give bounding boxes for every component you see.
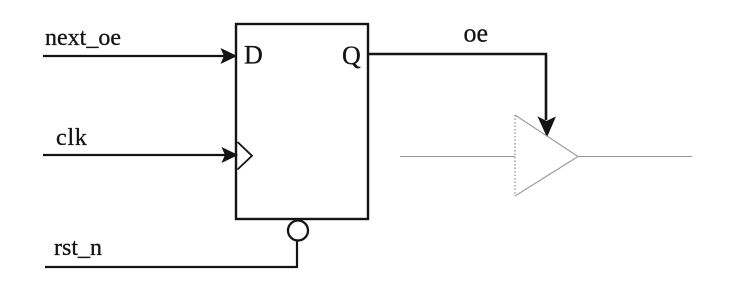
net label clk xyxy=(56,125,88,151)
pin label D xyxy=(244,41,263,70)
svg-text:clk: clk xyxy=(56,125,88,151)
wire clk xyxy=(43,154,225,156)
D flip-flop U1 xyxy=(236,24,368,219)
svg-text:oe: oe xyxy=(464,19,489,48)
arrowhead into buffer enable xyxy=(539,118,556,137)
net label oe xyxy=(464,19,489,48)
net label rst_n xyxy=(54,235,102,261)
reset bubble xyxy=(288,221,308,241)
clock wedge xyxy=(238,142,253,170)
wire oe from Q xyxy=(368,54,546,120)
wire rst_n xyxy=(45,242,297,268)
svg-text:Q: Q xyxy=(342,41,361,70)
pin label Q xyxy=(342,41,361,70)
tri-state buffer (gray) xyxy=(515,115,578,196)
arrowhead into clock pin xyxy=(223,148,238,162)
net label next_oe xyxy=(45,25,121,51)
gray output line from buffer xyxy=(578,156,692,158)
wire next_oe xyxy=(43,55,224,57)
svg-text:D: D xyxy=(244,41,263,70)
svg-text:rst_n: rst_n xyxy=(54,235,102,261)
svg-text:next_oe: next_oe xyxy=(45,25,121,51)
gray input line to buffer xyxy=(400,156,515,158)
arrowhead into D xyxy=(222,49,237,63)
